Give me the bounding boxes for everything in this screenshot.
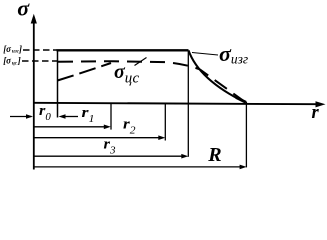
svg-text:изг: изг bbox=[12, 49, 19, 55]
svg-text:r: r bbox=[312, 103, 320, 123]
svg-text:]: ] bbox=[18, 44, 22, 54]
svg-text:R: R bbox=[207, 144, 221, 166]
svg-text:]: ] bbox=[17, 56, 21, 66]
svg-text:σ: σ bbox=[17, 0, 30, 20]
svg-text:[σ: [σ bbox=[3, 56, 12, 66]
svg-text:[σ: [σ bbox=[3, 44, 12, 54]
